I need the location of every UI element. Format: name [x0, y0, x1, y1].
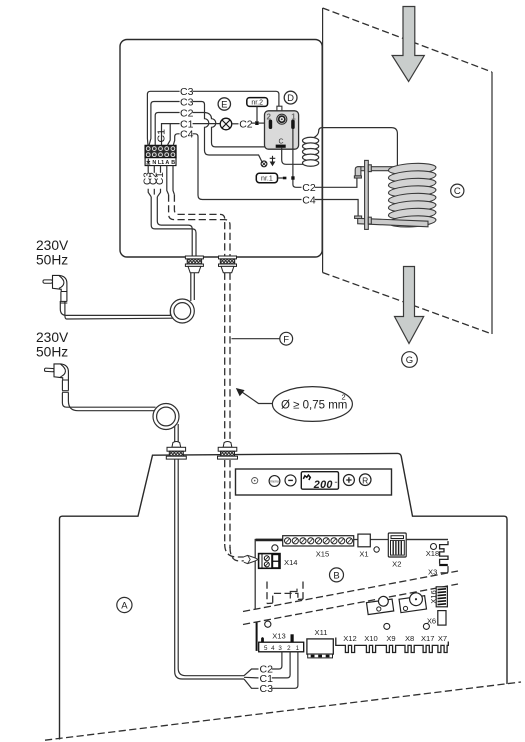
- svg-text:X17: X17: [421, 634, 435, 643]
- connector X13: [259, 632, 304, 652]
- svg-text:B: B: [333, 570, 339, 581]
- fork and wire labels C2 C1 C3 to X13: [244, 652, 298, 695]
- node B circle: [330, 568, 344, 582]
- svg-text:X12: X12: [343, 634, 357, 643]
- diagonal cut dashed lines through boards: [243, 571, 458, 625]
- svg-text:F: F: [283, 334, 289, 345]
- svg-text:X2: X2: [392, 560, 401, 569]
- flue panel dashed top edge: [323, 8, 492, 72]
- svg-text:N: N: [152, 160, 156, 166]
- svg-text:C: C: [278, 139, 283, 146]
- top elbow + cap: [355, 167, 361, 176]
- node A circle: [117, 597, 132, 612]
- connector X16: [429, 587, 448, 607]
- svg-text:230V: 230V: [36, 238, 69, 253]
- control board B outline: [255, 540, 448, 610]
- nr.1 label box: [256, 173, 286, 182]
- wire C3 (second, to lamp branch / chassis tab): [149, 96, 262, 161]
- display panel: [236, 469, 392, 495]
- wire thermostat pin1 down with nr.1 plug connector: [291, 129, 301, 187]
- node E circle: [218, 98, 230, 111]
- power led button: [252, 478, 258, 484]
- svg-text:2: 2: [287, 645, 291, 652]
- boiler gland left (on boiler top): [166, 441, 186, 459]
- wire C2 to heater top terminal: [302, 178, 357, 194]
- menu button: [269, 476, 280, 487]
- svg-text:C2: C2: [239, 119, 253, 131]
- svg-text:C4: C4: [180, 129, 194, 141]
- svg-text:A: A: [165, 160, 169, 166]
- mains plug 1: [43, 275, 67, 303]
- svg-text:X1: X1: [359, 549, 368, 558]
- bottom elbow cap: [355, 216, 362, 218]
- svg-text:X18: X18: [426, 549, 440, 558]
- chassis fast-on terminal (key symbol): [261, 161, 267, 167]
- node C circle: [451, 184, 464, 197]
- svg-text:G: G: [406, 355, 413, 366]
- flange bar: [365, 160, 369, 229]
- wire C3 (first, to thermostat D): [147, 86, 279, 145]
- small bracket component left of lower board: [290, 589, 297, 599]
- svg-text:X6: X6: [427, 617, 436, 626]
- svg-text:C3: C3: [260, 683, 274, 695]
- label X3: [428, 568, 437, 577]
- svg-text:C: C: [454, 186, 461, 197]
- connector X2 (socket): [388, 533, 448, 569]
- svg-text:X8: X8: [405, 634, 414, 643]
- label 230V 50Hz (upper): [36, 238, 69, 268]
- earth-to-chassis symbol: [270, 156, 276, 166]
- svg-text:X10: X10: [364, 634, 378, 643]
- connector X11: [307, 628, 333, 658]
- wire lamp to thermostat pin 2 with label C2: [232, 119, 269, 131]
- svg-text:230V: 230V: [36, 330, 69, 345]
- svg-text:E: E: [221, 100, 227, 111]
- node F circle: [232, 332, 293, 345]
- mains cable from left gland down to loop and plug 1: [60, 273, 194, 323]
- lower board left edge: [257, 621, 271, 651]
- svg-text:A: A: [121, 601, 128, 612]
- svg-text:D: D: [287, 93, 294, 104]
- node G circle: [402, 352, 418, 368]
- svg-text:200: 200: [313, 479, 333, 491]
- air flow arrow top: [392, 7, 424, 82]
- flue panel right edge: [491, 72, 493, 334]
- spade lug into X14: [244, 555, 258, 563]
- svg-text:R: R: [362, 475, 368, 485]
- LCD display: [301, 472, 338, 490]
- flue panel dashed bottom edge: [323, 273, 492, 335]
- connector X6: [427, 611, 446, 626]
- wire C4 to heater bottom terminal: [302, 194, 358, 216]
- relay footprint 2 on lower board: [398, 592, 426, 613]
- terminal block X (mains strip): [145, 145, 176, 165]
- R button: [359, 474, 371, 486]
- svg-text:X9: X9: [386, 634, 395, 643]
- dashed cable from gland to X14: [225, 460, 244, 561]
- flue panel left edge: [322, 8, 324, 273]
- svg-text:C4: C4: [302, 194, 316, 206]
- svg-text:X13: X13: [272, 632, 286, 641]
- mains plug 2: [44, 364, 68, 392]
- A/B wires below terminal block: [167, 166, 175, 195]
- long dashed cable F down to boiler: [225, 273, 230, 441]
- thermostat D body: [265, 106, 299, 149]
- plus button: [343, 475, 354, 486]
- cable gland (box, right): [219, 256, 237, 273]
- air flow arrow bottom: [395, 267, 424, 344]
- svg-text:X11: X11: [315, 628, 328, 637]
- svg-text:C1: C1: [155, 172, 166, 185]
- dashed A/B cable to right gland: [169, 195, 230, 256]
- svg-text:X7: X7: [438, 634, 447, 643]
- signal lamp E: [220, 118, 232, 130]
- bottom tube: [358, 218, 428, 227]
- cable from plug 2 to loop and boiler left gland: [62, 393, 179, 443]
- dashed transformer outline on board B: [267, 582, 303, 604]
- svg-text:C1: C1: [156, 129, 168, 143]
- wire thermostat C to relay coil: [282, 148, 303, 165]
- castellated bottom edge with connector footprints X12 X10 X9 X8 X17 X7: [336, 623, 449, 652]
- panel frame: [236, 469, 392, 495]
- svg-text:Ø ≥ 0,75 mm: Ø ≥ 0,75 mm: [281, 400, 347, 412]
- svg-text:L1: L1: [158, 160, 164, 166]
- svg-text:nr.2: nr.2: [251, 99, 263, 106]
- svg-text:3: 3: [278, 645, 282, 652]
- svg-text:nr.1: nr.1: [261, 175, 273, 182]
- cross-section callout: diameter label ellipse: [236, 387, 353, 422]
- connector X18: [426, 541, 448, 573]
- flange nubs: [368, 165, 371, 172]
- relay coil (solenoid): [303, 128, 398, 167]
- svg-text:2: 2: [342, 393, 346, 402]
- control unit box (top rounded box): [120, 40, 322, 258]
- minus button: [285, 475, 296, 486]
- svg-text:menu: menu: [270, 480, 279, 484]
- wire C4 (terminal B to heater lower pin): [173, 129, 301, 200]
- svg-text:B: B: [171, 160, 175, 166]
- svg-text:4: 4: [271, 645, 275, 652]
- connector X15 (screw strip): [283, 536, 354, 559]
- boiler gland right (on boiler top): [218, 441, 238, 459]
- node D circle: [284, 91, 297, 104]
- heater coil rings: [388, 162, 436, 228]
- wire C2 (to thermostat body): [155, 107, 264, 146]
- svg-text:X14: X14: [284, 558, 298, 567]
- svg-text:50Hz: 50Hz: [36, 253, 68, 268]
- svg-text:C2: C2: [302, 182, 316, 194]
- svg-text:X15: X15: [316, 549, 330, 558]
- connector X14 with spade terminal: [259, 545, 298, 568]
- connector X1: [358, 534, 379, 558]
- boiler outline (unit A): [60, 453, 508, 739]
- nr.2 label box: [247, 98, 268, 121]
- mains wires below terminal block with labels C3 C2 C1: [142, 166, 166, 197]
- boiler bottom section-cut dashed line: [45, 682, 521, 740]
- cable gland (box, left): [185, 256, 203, 273]
- solid mains cable inside boiler to fork: [175, 459, 244, 679]
- svg-text:50Hz: 50Hz: [36, 345, 68, 360]
- svg-text:5: 5: [264, 645, 268, 652]
- top tube: [358, 167, 430, 171]
- label 230V 50Hz (lower): [36, 330, 69, 360]
- wire C1 (with L1-A jumper): [156, 119, 220, 146]
- mains cable (double line) to left gland: [151, 197, 196, 256]
- relay footprint 1 on lower board: [366, 595, 394, 614]
- svg-text:1: 1: [296, 645, 300, 652]
- heating element C (coil + flange): [354, 160, 436, 229]
